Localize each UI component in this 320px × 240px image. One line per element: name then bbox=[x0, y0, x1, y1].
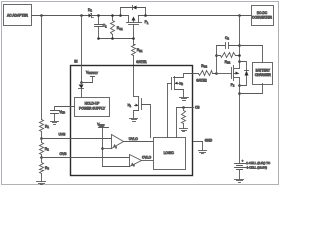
hold-up power supply block bbox=[75, 98, 110, 117]
node IN internal bbox=[80, 81, 83, 84]
ground below R3 bbox=[37, 181, 46, 183]
svg-text:RG1: RG1 bbox=[117, 26, 123, 31]
transistor N1 (N-channel MOSFET) bbox=[134, 97, 151, 138]
wire OVS bbox=[42, 157, 130, 159]
svg-text:D1: D1 bbox=[88, 8, 92, 13]
capacitor C1 bbox=[95, 16, 103, 39]
node OVS tap bbox=[40, 156, 43, 159]
capacitor C2 bbox=[217, 43, 240, 49]
wire GND pin bbox=[194, 142, 203, 151]
wire: top rail left segment bbox=[32, 15, 129, 17]
svg-text:OVLO: OVLO bbox=[142, 156, 152, 160]
AC adapter box bbox=[4, 5, 32, 26]
wire: top rail right segment bbox=[139, 15, 252, 17]
wire: right rail upper bbox=[239, 16, 241, 69]
resistor on CB bbox=[182, 108, 186, 129]
op-amp A1 UVLO comparator bbox=[112, 135, 124, 149]
svg-text:BATTERY: BATTERY bbox=[256, 69, 271, 73]
wire: divider feed bbox=[41, 16, 43, 120]
resistor R2 bbox=[40, 139, 44, 158]
svg-text:4-CELL (16.8V): 4-CELL (16.8V) bbox=[246, 165, 267, 169]
capacitor on VDD bbox=[51, 111, 59, 121]
svg-text:C2: C2 bbox=[225, 36, 229, 41]
ground below N1 bbox=[130, 118, 138, 120]
svg-text:R1: R1 bbox=[45, 124, 49, 129]
op-amp U1 main IC outline bbox=[71, 66, 193, 176]
node VREF rail bbox=[99, 128, 109, 167]
border frame bbox=[2, 2, 279, 185]
svg-text:RG2: RG2 bbox=[201, 64, 207, 69]
battery charger box bbox=[253, 63, 273, 85]
resistor RB2 bbox=[217, 53, 240, 58]
resistor R3 bbox=[40, 158, 44, 182]
logic block bbox=[154, 138, 186, 170]
wire: charger return bbox=[240, 84, 263, 94]
svg-text:UVLO: UVLO bbox=[129, 137, 138, 141]
diode bypass across P2 bbox=[240, 62, 249, 86]
svg-text:AC ADAPTER: AC ADAPTER bbox=[7, 13, 29, 17]
diode D1 (Schottky) bbox=[89, 14, 94, 18]
svg-text:GATE1: GATE1 bbox=[136, 60, 147, 64]
svg-text:GND: GND bbox=[205, 138, 213, 142]
svg-text:GATE2: GATE2 bbox=[196, 79, 207, 83]
transistor P2 (P-channel MOSFET) bbox=[217, 66, 240, 81]
svg-text:N1: N1 bbox=[128, 103, 132, 108]
svg-text:VREF: VREF bbox=[97, 123, 105, 128]
svg-text:R2: R2 bbox=[45, 147, 49, 152]
wire: N2 gate to logic bbox=[167, 84, 169, 138]
node: rail junctions bbox=[40, 14, 43, 17]
svg-text:R3: R3 bbox=[45, 166, 49, 171]
wire: GATE1 pin wire bbox=[133, 56, 135, 97]
svg-text:LOGIC: LOGIC bbox=[164, 151, 175, 155]
svg-text:UVS: UVS bbox=[59, 132, 67, 136]
wire CB pin bbox=[177, 108, 194, 138]
resistor RG2 bbox=[194, 71, 217, 76]
resistor RB1 bbox=[132, 39, 136, 56]
svg-text:DC-DC: DC-DC bbox=[257, 11, 268, 15]
svg-text:P2: P2 bbox=[231, 83, 235, 88]
resistor R1 bbox=[40, 120, 44, 139]
node UVS tap bbox=[40, 137, 43, 140]
wire: VDD pin bbox=[55, 107, 75, 111]
svg-text:HOLD-UP: HOLD-UP bbox=[85, 102, 101, 106]
wire: IN pin bbox=[81, 16, 83, 83]
ground below battery bbox=[235, 179, 244, 181]
DC-DC converter box bbox=[252, 6, 274, 26]
resistor RG1 bbox=[111, 16, 115, 39]
ground below CB resistor bbox=[180, 128, 188, 130]
op-amp A2 OVLO comparator bbox=[130, 155, 142, 167]
svg-text:POWER SUPPLY: POWER SUPPLY bbox=[79, 107, 106, 111]
svg-text:N2: N2 bbox=[179, 81, 183, 86]
wire OVLO bbox=[142, 160, 154, 162]
svg-text:C1: C1 bbox=[103, 24, 107, 29]
wire: gate node of P1 bbox=[99, 38, 134, 40]
svg-text:OVS: OVS bbox=[60, 152, 68, 156]
svg-text:RB2: RB2 bbox=[225, 60, 231, 65]
svg-text:+: + bbox=[242, 158, 244, 162]
svg-text:RB1: RB1 bbox=[137, 48, 143, 53]
svg-text:VDD: VDD bbox=[59, 110, 65, 115]
wire UVLO bbox=[124, 141, 154, 143]
ground below N2 source bbox=[180, 97, 189, 99]
wire UVS bbox=[42, 138, 112, 140]
ground symbol at GND pin bbox=[199, 150, 207, 152]
svg-text:CHARGER: CHARGER bbox=[255, 73, 272, 77]
wire: charger input bbox=[240, 46, 263, 63]
svg-text:IN: IN bbox=[74, 60, 78, 64]
battery bbox=[235, 164, 246, 179]
wire: right rail lower bbox=[239, 78, 241, 164]
svg-text:CONVERTER: CONVERTER bbox=[252, 16, 273, 20]
transistor P1 (P-channel MOSFET) bbox=[127, 16, 142, 39]
diode feeding hold-up supply bbox=[79, 83, 84, 98]
svg-text:VSUPPLY: VSUPPLY bbox=[86, 70, 98, 75]
wire: VSUPPLY tap bbox=[82, 77, 95, 83]
ground below VDD cap bbox=[51, 121, 59, 123]
transistor N2 (N-channel MOSFET) bbox=[168, 74, 194, 97]
diode bypass across P1 bbox=[121, 6, 146, 16]
wire: gate node vertical bbox=[216, 46, 218, 74]
svg-text:CB: CB bbox=[195, 106, 200, 110]
svg-text:P1: P1 bbox=[145, 20, 149, 25]
